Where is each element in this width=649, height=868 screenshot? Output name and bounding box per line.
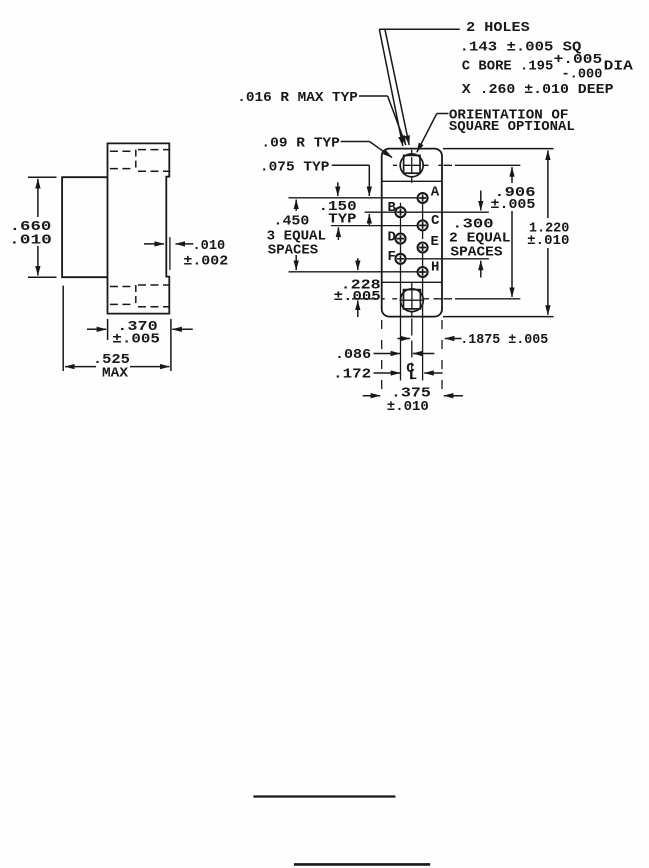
bottom mounting hole circle: [401, 289, 424, 312]
leader .09 R TYP: [341, 141, 370, 143]
svg-text:SQUARE OPTIONAL: SQUARE OPTIONAL: [449, 119, 575, 135]
leader 2 HOLES: [379, 28, 460, 30]
body bottom edge extension: [443, 316, 554, 318]
dim .075 TYP leader and arrows: [332, 165, 370, 170]
svg-text:F: F: [388, 249, 396, 265]
contact pin D: [396, 234, 406, 244]
svg-text:.075 TYP: .075 TYP: [260, 159, 330, 175]
svg-text:±.002: ±.002: [183, 254, 228, 270]
dim .150 TYP arrows: [337, 182, 339, 196]
dim .010 lip arrows: [144, 243, 164, 245]
contact pin B: [396, 207, 406, 217]
bottom mounting hole square: [404, 290, 421, 309]
contact pin A: [418, 193, 428, 203]
top mounting hole centerlines: [393, 150, 443, 183]
dim .660 extension lines: [28, 177, 57, 277]
svg-text:.1875 ±.005: .1875 ±.005: [460, 332, 548, 348]
left view body outline: [108, 143, 170, 313]
bottom reference line 2: [294, 863, 430, 866]
svg-text:-.000: -.000: [562, 67, 603, 83]
svg-text:SPACES: SPACES: [450, 244, 502, 260]
svg-text:B: B: [388, 200, 397, 216]
below-body extension line right: [441, 320, 443, 391]
hole centerline below body: [411, 319, 413, 385]
right view upper separation line: [382, 180, 442, 182]
right view body rounded rect: [382, 149, 442, 317]
contact pin F: [396, 254, 406, 264]
svg-text:±.005: ±.005: [334, 289, 381, 305]
dim 1.220 arrows: [547, 150, 549, 218]
bottom reference line 1: [253, 795, 395, 797]
svg-text:L: L: [409, 368, 417, 384]
svg-text:D: D: [388, 229, 396, 245]
dim .525 arrows: [65, 366, 96, 368]
svg-text:SPACES: SPACES: [268, 243, 318, 259]
svg-text:±.005: ±.005: [491, 197, 536, 213]
svg-text:TYP: TYP: [328, 212, 356, 228]
svg-text:±.010: ±.010: [387, 399, 429, 415]
right view lower separation line: [382, 281, 442, 283]
svg-text:.086: .086: [335, 347, 371, 363]
svg-text:C BORE .195: C BORE .195: [462, 59, 554, 75]
svg-text:E: E: [431, 234, 439, 250]
dim .450 arrows: [295, 200, 297, 211]
bottom mounting hole cross: [401, 290, 423, 309]
pin level line B: [365, 211, 489, 213]
contact pin E: [418, 243, 428, 253]
svg-text:A: A: [431, 184, 440, 200]
left view .010 lip line: [169, 237, 171, 270]
top mounting hole cross: [404, 157, 420, 173]
dim .370 extension lines: [108, 319, 171, 371]
contact pin C: [418, 220, 428, 230]
hidden hole bottom dashed lines: [110, 285, 169, 307]
svg-text:.172: .172: [333, 366, 371, 382]
left view front protrusion: [62, 177, 107, 277]
dim .1875 arrows: [445, 338, 462, 340]
svg-text:C: C: [431, 213, 440, 229]
svg-text:.09 R TYP: .09 R TYP: [261, 135, 340, 151]
pin column line left through bottom hole: [400, 203, 402, 381]
pin column line right through bottom hole: [422, 203, 424, 381]
svg-text:±.010: ±.010: [527, 233, 569, 249]
dim .525 extension line: [62, 286, 64, 371]
pin level line F: [395, 258, 489, 260]
below-body extension line left: [381, 320, 383, 391]
svg-text:MAX: MAX: [102, 365, 129, 381]
pin level line C: [331, 225, 421, 227]
top mounting hole square: [404, 155, 420, 173]
leader orientation of square: [437, 113, 449, 115]
dim .370 arrows: [87, 328, 106, 330]
svg-text:±.005: ±.005: [112, 332, 160, 348]
svg-text:H: H: [431, 259, 439, 275]
dim .300 arrows: [480, 191, 482, 211]
contact pin H: [418, 267, 428, 277]
svg-text:2 HOLES: 2 HOLES: [466, 20, 530, 36]
hidden hole top dashed lines: [110, 150, 169, 172]
dim .228 arrows: [357, 258, 359, 270]
dim .660 arrows: [37, 179, 39, 217]
bottom mounting hole centerlines: [352, 282, 442, 316]
svg-text:.010: .010: [9, 233, 52, 249]
svg-text:.016 R MAX TYP: .016 R MAX TYP: [237, 90, 358, 106]
leader .016 R MAX TYP: [359, 95, 388, 97]
svg-text:X .260 ±.010 DEEP: X .260 ±.010 DEEP: [462, 82, 614, 98]
svg-text:.450: .450: [274, 213, 310, 229]
dim .172 arrows: [374, 372, 401, 374]
dim .375 arrows: [363, 395, 381, 397]
body top edge extension: [443, 148, 554, 150]
dim .906 arrows: [511, 167, 513, 183]
dim .086 arrows: [374, 353, 401, 355]
pin level line A: [289, 197, 418, 199]
pin level line H: [289, 271, 423, 273]
top mounting hole circle: [400, 154, 423, 177]
svg-text:.010: .010: [193, 238, 226, 254]
svg-text:DIA: DIA: [604, 59, 634, 75]
